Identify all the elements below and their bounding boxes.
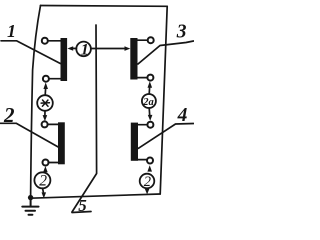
arrow down to enclosure bottom bbox=[145, 189, 150, 195]
svg-text:4: 4 bbox=[177, 105, 188, 126]
electrode plate 3 (bar) bbox=[130, 38, 137, 80]
enclosure wall bottom bbox=[31, 194, 161, 198]
plate 1 top arm bbox=[46, 40, 62, 42]
electrode plate 4 (bar) bbox=[131, 123, 138, 161]
plate 2 bottom terminal pin bbox=[43, 160, 49, 166]
wire circle1 to plate1 bbox=[73, 47, 76, 49]
enclosure wall right bbox=[160, 6, 167, 194]
plate 3 top arm bbox=[137, 39, 151, 41]
arrow up to plate 1 bottom pin bbox=[43, 82, 48, 89]
arrow down to plate 4 top pin bbox=[148, 115, 153, 121]
leader line of label 4 bbox=[138, 124, 193, 149]
designation circle asterisk bbox=[37, 95, 53, 111]
leader line of label 3 bbox=[138, 41, 194, 64]
designation circle 1 bbox=[76, 42, 91, 57]
svg-text:3: 3 bbox=[176, 22, 187, 43]
arrow up to plate 4 bottom pin bbox=[147, 165, 152, 171]
wire circle 2a up bbox=[148, 87, 150, 94]
electrode plate 2 (bar) bbox=[58, 122, 65, 164]
label 5 underline bbox=[72, 212, 91, 213]
plate 2 top terminal pin bbox=[42, 121, 48, 127]
svg-text:1: 1 bbox=[81, 42, 89, 59]
wire circle 2 left down bbox=[42, 188, 45, 193]
wire asterisk circle to arrow bbox=[44, 89, 46, 95]
plate 4 bottom terminal pin bbox=[147, 158, 153, 164]
svg-text:2: 2 bbox=[3, 103, 15, 127]
plate 4 top terminal pin bbox=[147, 122, 153, 128]
enclosure wall left bbox=[31, 6, 41, 198]
plate 2 bottom arm bbox=[46, 162, 59, 164]
plate 3 bottom arm bbox=[137, 77, 151, 79]
designation circle 2 right bbox=[140, 174, 155, 189]
designation circle 2a bbox=[142, 94, 156, 108]
svg-text:2a: 2a bbox=[142, 97, 154, 108]
plate 3 bottom terminal pin bbox=[147, 75, 153, 81]
plate 4 bottom arm bbox=[137, 159, 150, 161]
leader line of label 2 bbox=[1, 123, 59, 147]
arrow into plate 1 bbox=[67, 46, 73, 51]
arrow up to plate 3 bottom pin bbox=[148, 81, 153, 88]
electrode plate 1 (bar) bbox=[61, 38, 68, 81]
plate 4 top arm bbox=[137, 124, 150, 126]
arrow up to plate 2 bottom pin bbox=[43, 166, 48, 172]
asterisk symbol bbox=[41, 100, 49, 106]
enclosure wall top bbox=[41, 5, 168, 8]
svg-text:2: 2 bbox=[39, 172, 47, 189]
arrow into plate 3 bbox=[125, 46, 131, 51]
svg-text:5: 5 bbox=[78, 196, 87, 215]
arrow down to plate 2 top pin bbox=[43, 115, 48, 121]
wire circle 2a down bbox=[148, 108, 151, 115]
junction dot (enclosure to ground) bbox=[28, 195, 33, 200]
designation circle 2 left bbox=[34, 172, 50, 188]
svg-text:2: 2 bbox=[144, 174, 151, 190]
svg-text:1: 1 bbox=[7, 21, 16, 41]
wire circle1 to plate3 bbox=[91, 48, 125, 50]
ground bbox=[22, 198, 38, 215]
wire asterisk circle down bbox=[44, 111, 46, 116]
plate 1 bottom arm bbox=[47, 78, 62, 80]
wire circle 2 right down bbox=[146, 188, 148, 190]
plate 1 bottom terminal pin bbox=[43, 76, 49, 82]
leader line of label 1 bbox=[1, 41, 60, 64]
plate 1 top terminal pin bbox=[42, 38, 48, 44]
plate 3 top terminal pin bbox=[148, 37, 154, 43]
arrow down to enclosure bottom bbox=[42, 192, 47, 198]
partition wall 5 (center septum with leader to label) bbox=[72, 25, 97, 212]
plate 2 top arm bbox=[45, 123, 59, 125]
